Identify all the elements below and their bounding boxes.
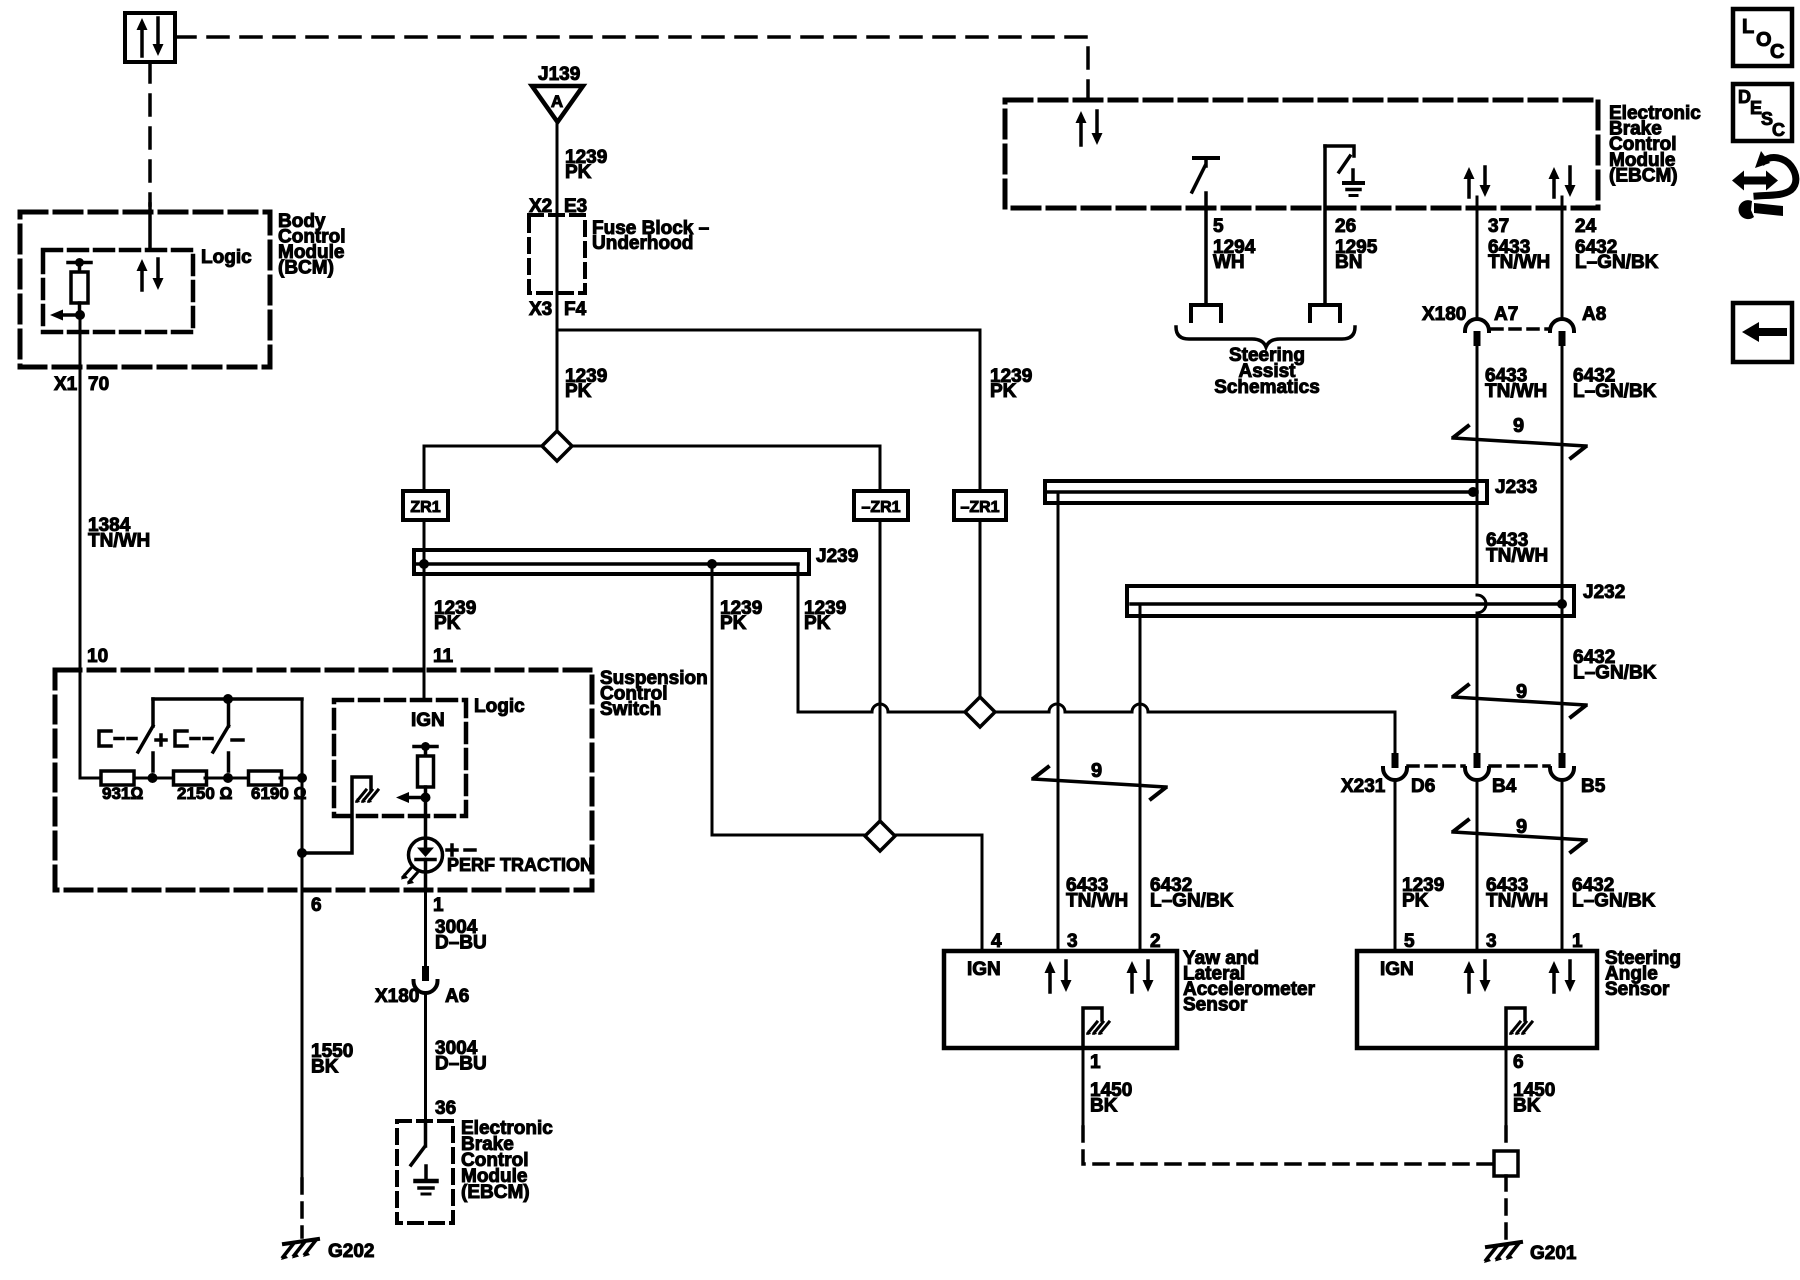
wire 1239 PK from J239 middle down [711, 564, 714, 835]
svg-text:G201: G201 [1530, 1243, 1577, 1264]
svg-text:IGN: IGN [1380, 959, 1414, 980]
wire through fuse block [556, 215, 559, 330]
component box Steering Angle Sensor [1357, 951, 1597, 1048]
option box -ZR1 (left) [854, 491, 908, 520]
icon box LOC [1733, 9, 1792, 66]
svg-text:A8: A8 [1582, 304, 1606, 325]
pin 26 label and wire 1295 BN [1335, 216, 1378, 273]
svg-text:Logic: Logic [474, 696, 525, 717]
svg-text:J233: J233 [1495, 477, 1537, 498]
wire 6433 through J233 junction dot [1468, 481, 1478, 503]
svg-text:PK: PK [990, 381, 1017, 402]
svg-text:9: 9 [1513, 415, 1524, 437]
wire 1450 BK from yaw pin 1 [1083, 1048, 1132, 1127]
wire to right riser [280, 773, 307, 783]
illumination ground link [302, 777, 378, 853]
svg-text:TN/WH: TN/WH [1488, 252, 1550, 273]
connector dashes A7-A8 [1492, 327, 1549, 331]
svg-text:X3: X3 [529, 299, 552, 320]
svg-text:X180: X180 [1422, 304, 1466, 325]
splice diamond at 1239 junction [542, 431, 572, 461]
svg-text:TN/WH: TN/WH [1066, 891, 1128, 912]
wire 6432 from pin 24 [1561, 197, 1564, 319]
off-page pin bracket right [1310, 305, 1340, 321]
svg-text:PK: PK [804, 613, 831, 634]
wire label 1384 TN/WH [88, 515, 150, 552]
wire 6433 to steering pin 3 [1477, 781, 1548, 951]
label Steering Angle Sensor [1605, 948, 1681, 1000]
labels X231 D6 B4 B5 [1341, 776, 1606, 797]
label EBCM bottom [461, 1118, 553, 1203]
wire 6433 TN/WH below A7 [1477, 346, 1547, 481]
resistor 931 ohm [101, 771, 143, 803]
svg-text:Underhood: Underhood [592, 233, 693, 254]
wire 3004 D-BU lower [426, 994, 487, 1121]
svg-text:G202: G202 [328, 1241, 374, 1262]
svg-text:L–GN/BK: L–GN/BK [1150, 891, 1234, 912]
splice pack J233 [1045, 481, 1487, 503]
logic box inside BCM (dashed) [43, 250, 193, 332]
svg-text:L: L [1742, 16, 1754, 38]
pin 24 label wire 6432 L-GN/BK [1575, 216, 1659, 273]
yaw serial arrows pin 2 [1127, 961, 1154, 992]
svg-text:TN/WH: TN/WH [88, 531, 150, 552]
svg-text:WH: WH [1213, 252, 1245, 273]
svg-text:PK: PK [565, 162, 592, 183]
svg-text:B5: B5 [1581, 776, 1606, 797]
wire J232 left end down to yaw pin 2 [1139, 604, 1142, 951]
right riser wire [297, 699, 307, 890]
loom crossing 9 (middle right) [1453, 681, 1586, 717]
svg-text:L–GN/BK: L–GN/BK [1573, 663, 1657, 684]
svg-text:PK: PK [1402, 891, 1429, 912]
wire 1239 PK main down [556, 330, 559, 434]
switch top bus [153, 694, 302, 704]
IGN feed resistor [414, 742, 437, 787]
svg-text:1: 1 [433, 895, 444, 916]
svg-text:BK: BK [1513, 1096, 1541, 1117]
wire -ZR1 right down [979, 520, 982, 698]
svg-text:BK: BK [311, 1057, 339, 1078]
label Fuse Block Underhood [592, 218, 709, 254]
svg-text:Switch: Switch [600, 699, 661, 720]
wire ZR1 to J239 and on to switch pin 11 [423, 520, 426, 700]
svg-text:TN/WH: TN/WH [1486, 546, 1548, 567]
svg-text:D6: D6 [1411, 776, 1435, 797]
pin labels 4 3 2 [991, 931, 1161, 952]
label Suspension Control Switch [600, 668, 708, 720]
svg-text:(EBCM): (EBCM) [461, 1182, 530, 1203]
logic box inside switch (dashed) [334, 700, 466, 816]
steering serial arrows pin 1 [1549, 961, 1576, 992]
resistor 2150 ohm [174, 771, 233, 803]
splice bus wire at ZR1 row [424, 446, 880, 491]
svg-text:Logic: Logic [201, 247, 252, 268]
wire 6433 TN/WH between J233 and J232 [1477, 503, 1548, 595]
wire 3004 D-BU upper [426, 890, 487, 966]
dashed wire to G202 [300, 1179, 304, 1237]
svg-text:2150 Ω: 2150 Ω [177, 784, 233, 803]
label Steering Assist Schematics [1214, 345, 1320, 398]
module box Suspension Control Switch (dashed) [55, 670, 592, 890]
label J139 [538, 64, 580, 85]
svg-text:X231: X231 [1341, 776, 1386, 797]
splice diamond right of -ZR1 [965, 697, 995, 727]
connector label X2 E3 [529, 196, 587, 217]
svg-text:TN/WH: TN/WH [1485, 381, 1547, 402]
label BCM [278, 211, 346, 279]
option box ZR1 [403, 491, 448, 520]
svg-text:BK: BK [1090, 1096, 1118, 1117]
pin labels 5 3 1 [1404, 931, 1583, 952]
steering internal ground [1506, 1008, 1532, 1048]
wire 1239 PK from J139 [556, 122, 559, 215]
svg-text:IGN: IGN [967, 959, 1001, 980]
loom crossing 9 (top right) [1453, 415, 1586, 458]
module box EBCM (dashed) [1005, 100, 1598, 208]
label IGN (switch) [411, 710, 445, 731]
svg-text:9: 9 [1516, 681, 1527, 703]
wire 1239 PK below ZR1 label [434, 598, 476, 634]
plus switch [99, 699, 166, 771]
svg-text:L–GN/BK: L–GN/BK [1572, 891, 1656, 912]
dashed ground wire from steering [1504, 1127, 1508, 1151]
svg-text:L–GN/BK: L–GN/BK [1573, 381, 1657, 402]
svg-text:J139: J139 [538, 64, 580, 85]
svg-text:9: 9 [1091, 760, 1102, 782]
svg-text:36: 36 [435, 1098, 456, 1119]
wire -ZR1 left down [879, 520, 882, 822]
ground splice box [1494, 1151, 1518, 1176]
svg-text:37: 37 [1488, 216, 1509, 237]
fuse block box (dashed) [529, 215, 585, 293]
wire to yaw sensor IGN pin 4 [712, 835, 982, 951]
svg-text:C: C [1770, 41, 1784, 63]
serial arrows pin 37 [1464, 167, 1491, 197]
loom crossing 9 (left pair) [1033, 760, 1166, 799]
svg-text:B4: B4 [1492, 776, 1517, 797]
off-page pin bracket left [1191, 305, 1221, 321]
svg-text:X1: X1 [54, 374, 78, 395]
connector label X3 F4 [529, 299, 587, 320]
svg-text:TN/WH: TN/WH [1486, 891, 1548, 912]
wire 6433 hop over J232 [1477, 595, 1486, 753]
serial arrows pin 24 [1549, 167, 1576, 197]
nav symbol box top-left [125, 13, 175, 62]
connector X231 D6 [1383, 753, 1407, 780]
splice diamond on IGN feed [865, 821, 895, 851]
svg-text:6190 Ω: 6190 Ω [251, 784, 307, 803]
svg-text:A6: A6 [445, 986, 469, 1007]
junction dot J239 left [419, 552, 429, 572]
serial data arrows in EBCM [1076, 111, 1103, 145]
component box Yaw and Lateral Accelerometer Sensor [944, 951, 1177, 1048]
splice pack J239 [414, 550, 809, 574]
svg-text:6: 6 [311, 895, 322, 916]
label J233 [1495, 477, 1537, 498]
pin 5 label and wire 1294 WH [1213, 216, 1256, 273]
wire 6433 from pin 37 [1476, 197, 1479, 319]
wire [205, 773, 250, 783]
wire 6432 L-GN/BK below A8 [1562, 346, 1657, 586]
switch to ground pin 26 [1325, 146, 1363, 305]
svg-text:PK: PK [434, 613, 461, 634]
power feed triangle J139 [532, 86, 583, 122]
label PERF TRACTION [447, 855, 593, 875]
svg-text:ZR1: ZR1 [410, 499, 440, 516]
brace steering assist [1176, 327, 1355, 347]
svg-text:PERF TRACTION: PERF TRACTION [447, 855, 593, 875]
svg-text:26: 26 [1335, 216, 1356, 237]
svg-text:PK: PK [720, 613, 747, 634]
ground switch in EBCM [411, 1121, 426, 1165]
label EBCM [1609, 103, 1701, 186]
label Logic (switch) [474, 696, 525, 717]
svg-text:A7: A7 [1494, 304, 1518, 325]
loom crossing 9 (lower right) [1453, 816, 1586, 852]
svg-text:11: 11 [433, 646, 454, 667]
svg-text:931Ω: 931Ω [102, 784, 143, 803]
signal output arrow [396, 787, 431, 816]
svg-text:L–GN/BK: L–GN/BK [1575, 252, 1659, 273]
ground G201 [1484, 1242, 1577, 1264]
switch to steering assist pin 5 [1192, 158, 1218, 305]
LED PERF TRACTION [401, 816, 443, 890]
icon box back-arrow [1733, 303, 1792, 362]
pin label 36 [435, 1098, 456, 1119]
svg-text:D–BU: D–BU [435, 1054, 487, 1075]
wire 1450 BK from steering pin 6 [1506, 1048, 1555, 1127]
connector label X1 70 [54, 374, 109, 395]
svg-text:5: 5 [1213, 216, 1224, 237]
wire 1239 PK from J239 right end [798, 564, 1395, 753]
pin 37 label wire 6433 TN/WH [1488, 216, 1550, 273]
splice pack J232 [1127, 586, 1574, 616]
svg-text:A: A [551, 92, 563, 111]
wire 6432 L-GN/BK below J232 [1562, 616, 1657, 753]
svg-text:10: 10 [87, 646, 108, 667]
wire 1239 PK to steering pin 5 [1395, 781, 1444, 951]
label J239 [816, 546, 858, 567]
svg-text:D–BU: D–BU [435, 933, 487, 954]
wire label 6432 to yaw pin 2 [1150, 875, 1234, 912]
label IGN (yaw) [967, 959, 1001, 980]
ground G202 [281, 1239, 374, 1262]
svg-text:6: 6 [1513, 1052, 1524, 1073]
svg-text:Schematics: Schematics [1214, 377, 1320, 398]
module box EBCM bottom (dashed) [397, 1121, 453, 1223]
serial data arrows in BCM logic [137, 259, 164, 290]
wire 1550 BK [302, 890, 353, 1179]
dashed wire to G201 [1504, 1176, 1508, 1240]
output arrow in BCM logic [50, 303, 85, 321]
yaw serial arrows pin 3 [1045, 961, 1072, 992]
junction dot J239 middle [707, 559, 717, 569]
module box BCM (dashed) [20, 212, 270, 367]
wire 1239 PK branch to -ZR1 right [557, 330, 980, 491]
wire 1384 TN/WH from BCM pin 70 [79, 315, 82, 670]
svg-text:9: 9 [1516, 816, 1527, 838]
connector B4 [1465, 753, 1489, 780]
connector dashes D6-B4-B5 [1408, 764, 1549, 768]
LED polarity labels [447, 845, 475, 855]
icon box DESC [1733, 84, 1792, 141]
resistor 6190 ohm [249, 771, 307, 803]
svg-text:IGN: IGN [411, 710, 445, 731]
svg-text:70: 70 [88, 374, 109, 395]
minus switch [175, 699, 243, 771]
label J232 [1583, 582, 1625, 603]
wire 6432 through J232 junction dot [1557, 586, 1567, 616]
svg-text:PK: PK [565, 381, 592, 402]
label IGN (steering) [1380, 959, 1414, 980]
connector X180 A8 [1550, 319, 1574, 346]
connector X180 A6 [375, 966, 469, 1007]
steering serial arrows pin 3 [1464, 961, 1491, 992]
pin labels 6 and 1 [311, 895, 444, 916]
driver resistor in BCM logic [68, 258, 91, 303]
yaw internal ground [1083, 1008, 1109, 1048]
svg-text:(BCM): (BCM) [278, 258, 334, 279]
earth ground in EBCM [416, 1166, 437, 1194]
wire [134, 773, 175, 783]
wire dashed from nav box to EBCM [175, 37, 1088, 100]
pin label 10 [87, 646, 108, 667]
pin label 11 [433, 646, 454, 667]
svg-text:J239: J239 [816, 546, 858, 567]
wire dashed from nav box down to BCM [148, 62, 152, 250]
svg-text:–ZR1: –ZR1 [960, 499, 999, 516]
label Yaw and Lateral Accelerometer Sensor [1183, 948, 1316, 1016]
connector X180 A7 [1465, 319, 1489, 346]
svg-text:Sensor: Sensor [1605, 979, 1670, 1000]
svg-text:(EBCM): (EBCM) [1609, 165, 1678, 186]
svg-text:24: 24 [1575, 216, 1597, 237]
svg-text:C: C [1772, 120, 1785, 140]
icon tool/hand [1732, 151, 1796, 219]
wire J233 left end down to yaw pin 3 [1057, 492, 1060, 951]
svg-text:X180: X180 [375, 986, 419, 1007]
wire into resistor ladder [80, 670, 101, 778]
svg-text:Sensor: Sensor [1183, 995, 1248, 1016]
option box -ZR1 (right) [954, 491, 1006, 520]
svg-text:–ZR1: –ZR1 [861, 499, 900, 516]
wire label 6433 to yaw pin 3 [1066, 875, 1128, 912]
svg-text:F4: F4 [564, 299, 587, 320]
svg-text:1: 1 [1090, 1052, 1101, 1073]
labels X180 A7 A8 [1422, 304, 1606, 325]
connector B5 [1550, 753, 1574, 780]
dashed ground wire from yaw [1083, 1127, 1494, 1164]
wire 6432 to steering pin 1 [1562, 781, 1656, 951]
label Logic (BCM) [201, 247, 252, 268]
svg-text:J232: J232 [1583, 582, 1625, 603]
svg-text:BN: BN [1335, 252, 1362, 273]
